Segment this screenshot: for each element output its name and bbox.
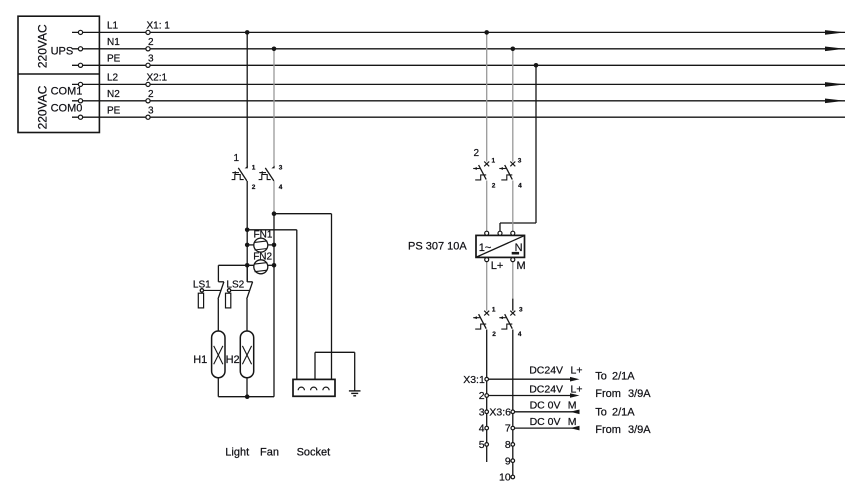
svg-text:FN2: FN2 [253, 251, 272, 262]
svg-text:DC 0V: DC 0V [530, 416, 561, 428]
svg-text:L+: L+ [571, 383, 583, 395]
svg-text:PS 307 10A: PS 307 10A [408, 240, 467, 252]
svg-text:FN1: FN1 [254, 229, 273, 240]
svg-text:2: 2 [492, 182, 496, 189]
svg-text:4: 4 [279, 184, 283, 191]
svg-text:3: 3 [479, 406, 485, 418]
svg-text:N2: N2 [107, 89, 120, 100]
svg-text:4: 4 [479, 423, 485, 435]
svg-text:1: 1 [252, 165, 256, 172]
svg-text:2: 2 [474, 148, 480, 159]
svg-text:Fan: Fan [260, 447, 279, 459]
svg-text:H1: H1 [193, 354, 207, 366]
svg-text:L1: L1 [107, 21, 119, 32]
svg-text:From: From [595, 424, 621, 436]
svg-text:L2: L2 [107, 73, 119, 84]
svg-text:Light: Light [225, 447, 249, 459]
svg-text:3/9A: 3/9A [628, 388, 651, 400]
svg-text:3/9A: 3/9A [628, 424, 651, 436]
svg-text:H2: H2 [226, 354, 240, 366]
svg-text:M: M [517, 260, 526, 272]
svg-text:LS1: LS1 [193, 280, 211, 291]
svg-text:LS2: LS2 [226, 280, 244, 291]
svg-text:1: 1 [492, 307, 496, 314]
svg-text:L+: L+ [571, 365, 583, 377]
svg-text:3: 3 [148, 54, 154, 65]
svg-text:X3:6: X3:6 [489, 406, 511, 418]
svg-text:2: 2 [148, 37, 154, 48]
svg-text:1: 1 [492, 158, 496, 165]
svg-text:DC 0V: DC 0V [530, 400, 561, 412]
svg-text:COM0: COM0 [51, 103, 83, 115]
svg-text:2/1A: 2/1A [612, 370, 635, 382]
svg-text:X2:1: X2:1 [147, 73, 168, 84]
svg-text:3: 3 [519, 307, 523, 314]
svg-text:4: 4 [518, 331, 522, 338]
svg-text:UPS: UPS [51, 46, 74, 58]
svg-text:DC24V: DC24V [529, 383, 563, 395]
svg-text:9: 9 [505, 455, 511, 467]
svg-text:From: From [595, 388, 621, 400]
svg-text:2: 2 [252, 184, 256, 191]
svg-text:COM1: COM1 [51, 86, 83, 98]
svg-text:2: 2 [492, 331, 496, 338]
svg-text:3: 3 [148, 106, 154, 117]
svg-text:PE: PE [107, 106, 121, 117]
svg-text:M: M [568, 416, 577, 428]
svg-text:PE: PE [107, 54, 121, 65]
svg-text:L+: L+ [491, 260, 504, 272]
svg-text:To: To [595, 370, 607, 382]
svg-text:3: 3 [518, 158, 522, 165]
svg-text:8: 8 [505, 439, 511, 451]
svg-text:2/1A: 2/1A [612, 406, 635, 418]
svg-text:220VAC: 220VAC [35, 85, 49, 129]
svg-text:7: 7 [505, 423, 511, 435]
svg-text:Socket: Socket [297, 447, 331, 459]
svg-text:X3:1: X3:1 [463, 374, 485, 386]
svg-text:DC24V: DC24V [529, 365, 563, 377]
svg-text:3: 3 [279, 165, 283, 172]
svg-text:To: To [595, 406, 607, 418]
svg-text:1~: 1~ [479, 242, 492, 254]
svg-text:4: 4 [518, 182, 522, 189]
svg-text:10: 10 [499, 472, 511, 484]
svg-text:5: 5 [479, 439, 485, 451]
svg-text:N: N [515, 242, 523, 254]
svg-text:1: 1 [234, 153, 240, 164]
svg-text:N1: N1 [107, 37, 120, 48]
svg-text:M: M [568, 400, 577, 412]
svg-text:220VAC: 220VAC [35, 24, 49, 68]
svg-text:2: 2 [479, 390, 485, 402]
svg-text:2: 2 [148, 89, 154, 100]
svg-text:X1: 1: X1: 1 [147, 21, 171, 32]
